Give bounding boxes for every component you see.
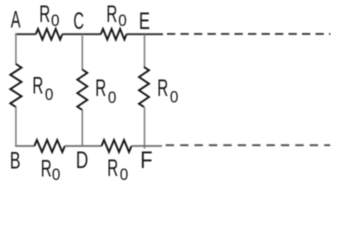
svg-text:B: B	[10, 147, 21, 174]
wire bottom horizontal F stub	[132, 145, 163, 147]
wire vertical C-D lower	[81, 110, 83, 146]
wire vertical E-F upper	[144, 34, 146, 67]
svg-text:E: E	[139, 8, 150, 35]
label R0 vertical C-D resistor	[95, 75, 116, 107]
resistor R0 vertical A-B	[10, 64, 21, 107]
resistor R0 vertical C-D	[77, 70, 87, 111]
svg-text:0: 0	[52, 166, 61, 184]
label R0 bottom-left resistor	[41, 156, 61, 184]
label R0 top-right resistor	[106, 1, 126, 30]
svg-text:D: D	[76, 147, 88, 174]
svg-text:C: C	[73, 8, 84, 35]
label R0 bottom-right resistor	[107, 155, 128, 184]
label R0 vertical E-F resistor	[157, 75, 178, 106]
wire bottom horizontal between resistors (node D)	[65, 145, 102, 147]
resistor R0 top-right (C-E)	[101, 29, 127, 40]
svg-text:R: R	[41, 156, 52, 182]
wire vertical A-B lower	[15, 107, 17, 147]
svg-text:0: 0	[108, 89, 117, 107]
wire vertical E-F lower	[144, 107, 146, 149]
resistor R0 bottom-right (D-F)	[102, 140, 132, 152]
svg-text:R: R	[39, 1, 50, 27]
svg-text:A: A	[11, 7, 21, 34]
svg-text:R: R	[106, 1, 117, 27]
wire top horizontal E stub	[127, 33, 164, 35]
wire vertical A-B upper	[15, 34, 17, 65]
svg-text:R: R	[107, 155, 118, 181]
resistor R0 bottom-left (B-D)	[34, 140, 64, 152]
wire bottom horizontal B to first resistor	[15, 145, 34, 147]
svg-text:0: 0	[51, 13, 60, 31]
svg-text:R: R	[157, 75, 168, 101]
svg-text:0: 0	[118, 13, 127, 31]
wire top dashed continuation	[167, 33, 330, 35]
wire top horizontal between resistors (node C)	[62, 33, 101, 35]
resistor R0 vertical E-F	[139, 67, 149, 107]
svg-text:R: R	[95, 75, 106, 101]
wire vertical C-D upper	[81, 34, 83, 70]
label R0 vertical A-B resistor	[32, 73, 53, 104]
resistor R0 top-left (A-C)	[36, 29, 63, 40]
label R0 top-left resistor	[39, 1, 59, 30]
wire bottom dashed continuation	[166, 144, 331, 146]
svg-text:0: 0	[170, 89, 179, 107]
wire top horizontal A to first resistor	[15, 33, 36, 35]
svg-text:R: R	[32, 73, 43, 99]
svg-text:0: 0	[45, 86, 54, 104]
svg-text:0: 0	[120, 166, 129, 184]
svg-text:F: F	[140, 146, 152, 173]
